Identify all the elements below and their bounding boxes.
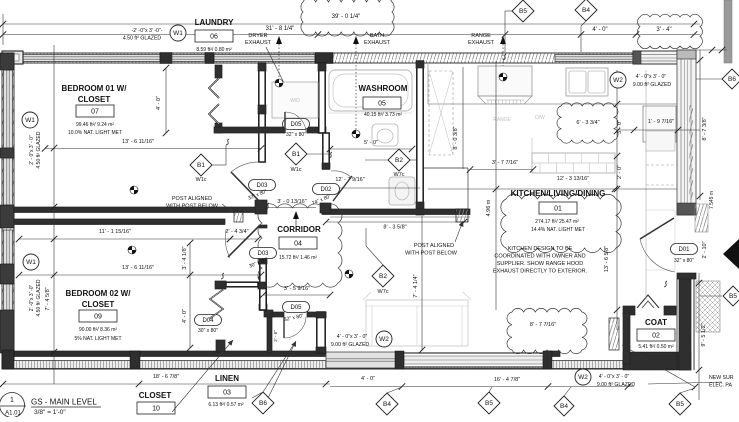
svg-text:1: 1 <box>10 397 14 404</box>
svg-text:EXHAUST: EXHAUST <box>364 40 391 46</box>
svg-text:KITCHEN/LIVING/DINING: KITCHEN/LIVING/DINING <box>511 189 606 198</box>
svg-text:5% NAT. LIGHT MET: 5% NAT. LIGHT MET <box>74 336 121 342</box>
svg-text:W1: W1 <box>173 30 183 37</box>
svg-text:32" x 80": 32" x 80" <box>286 132 306 138</box>
svg-text:7' - 4 1/4": 7' - 4 1/4" <box>413 274 419 297</box>
svg-text:4' - 0"x 3' - 0": 4' - 0"x 3' - 0" <box>599 374 630 380</box>
svg-text:1' - 9 7/16": 1' - 9 7/16" <box>648 119 674 125</box>
svg-text:3' - 0 13/16": 3' - 0 13/16" <box>277 199 306 205</box>
svg-text:4.50 ft² GLAZED: 4.50 ft² GLAZED <box>36 131 42 168</box>
svg-text:03: 03 <box>223 390 231 397</box>
svg-text:40.15 ft²/ 3.73 m²: 40.15 ft²/ 3.73 m² <box>364 112 402 118</box>
svg-text:CLOSET: CLOSET <box>139 391 172 400</box>
svg-text:W/D: W/D <box>290 98 300 104</box>
svg-text:W1: W1 <box>26 259 36 266</box>
svg-text:SUPPLIER. SHOW RANGE HOOD: SUPPLIER. SHOW RANGE HOOD <box>497 261 584 267</box>
svg-text:30" x 80": 30" x 80" <box>198 328 218 334</box>
svg-text:LAUNDRY: LAUNDRY <box>195 18 234 27</box>
svg-text:D02: D02 <box>320 187 332 193</box>
svg-text:B6: B6 <box>728 76 736 83</box>
svg-text:18' - 6 7/8": 18' - 6 7/8" <box>153 374 179 380</box>
svg-text:31' - 8 1/4": 31' - 8 1/4" <box>266 26 295 32</box>
svg-text:B5: B5 <box>485 400 493 407</box>
svg-text:10.0% NAT. LIGHT MET: 10.0% NAT. LIGHT MET <box>68 130 122 136</box>
svg-text:05: 05 <box>378 101 386 108</box>
svg-text:D03: D03 <box>257 251 269 257</box>
svg-text:9.00 ft² GLAZED: 9.00 ft² GLAZED <box>331 342 370 348</box>
svg-text:NEW SUR: NEW SUR <box>709 375 734 381</box>
svg-text:274.17 ft²/ 25.47 m²: 274.17 ft²/ 25.47 m² <box>535 219 579 225</box>
svg-text:WITH POST BELOW: WITH POST BELOW <box>166 204 219 210</box>
svg-text:4.50 ft² GLAZED: 4.50 ft² GLAZED <box>36 279 42 316</box>
svg-text:D05: D05 <box>290 305 302 311</box>
svg-text:B5: B5 <box>519 8 527 15</box>
svg-text:D01: D01 <box>678 247 690 253</box>
svg-text:2' - 4 3/4": 2' - 4 3/4" <box>225 229 248 235</box>
svg-text:A1.01: A1.01 <box>5 411 21 417</box>
svg-text:D03: D03 <box>256 183 268 189</box>
svg-text:99.46 ft²/ 9.24 m²: 99.46 ft²/ 9.24 m² <box>76 122 114 128</box>
svg-text:W2: W2 <box>379 336 389 343</box>
svg-text:EXHAUST DIRECTLY TO EXTERIOR.: EXHAUST DIRECTLY TO EXTERIOR. <box>493 269 588 275</box>
svg-text:W1c: W1c <box>291 167 302 173</box>
svg-text:15.72 ft²/ 1.46 m²: 15.72 ft²/ 1.46 m² <box>279 255 317 261</box>
svg-text:8' - 7 3/8": 8' - 7 3/8" <box>702 117 708 140</box>
svg-text:39' - 0 1/4": 39' - 0 1/4" <box>332 14 361 20</box>
svg-text:8.59 ft²/ 0.80 m²: 8.59 ft²/ 0.80 m² <box>196 47 232 53</box>
svg-text:9' - 5 1/2": 9' - 5 1/2" <box>701 323 707 346</box>
svg-text:3' - 5 9/16": 3' - 5 9/16" <box>284 286 310 292</box>
svg-text:B5: B5 <box>729 293 737 300</box>
svg-text:32" x 80": 32" x 80" <box>674 258 694 264</box>
svg-text:DRYER: DRYER <box>248 33 267 39</box>
svg-text:04: 04 <box>294 241 302 248</box>
svg-text:B1: B1 <box>292 151 300 158</box>
svg-text:13' - 6 11/16": 13' - 6 11/16" <box>122 265 154 271</box>
svg-text:W7c: W7c <box>394 172 405 178</box>
svg-text:8' - 7 7/16": 8' - 7 7/16" <box>530 322 556 328</box>
svg-text:RANGE: RANGE <box>471 33 491 39</box>
svg-text:07: 07 <box>91 109 99 116</box>
svg-text:06: 06 <box>210 34 218 41</box>
svg-text:3' - 4": 3' - 4" <box>656 27 671 33</box>
svg-text:W2: W2 <box>613 77 623 84</box>
svg-text:POST ALIGNED: POST ALIGNED <box>414 243 454 249</box>
svg-text:B2: B2 <box>379 273 387 280</box>
svg-text:COORDINATED WITH OWNER AND: COORDINATED WITH OWNER AND <box>494 254 585 260</box>
svg-text:POST ALIGNED: POST ALIGNED <box>172 196 212 202</box>
svg-text:4' - 0": 4' - 0" <box>592 27 607 33</box>
svg-text:14.4% NAT. LIGHT MET: 14.4% NAT. LIGHT MET <box>531 227 585 233</box>
svg-text:4.96 m: 4.96 m <box>486 199 492 216</box>
svg-text:D04: D04 <box>202 318 214 324</box>
svg-text:3' - 4 1/8": 3' - 4 1/8" <box>182 246 188 269</box>
svg-text:COAT: COAT <box>645 318 667 327</box>
svg-text:12' - 3 13/16": 12' - 3 13/16" <box>557 176 589 182</box>
svg-text:B4: B4 <box>383 401 391 408</box>
svg-text:B4: B4 <box>560 403 568 410</box>
svg-text:8' - 0 3/8": 8' - 0 3/8" <box>453 126 459 149</box>
svg-text:2' - 10": 2' - 10" <box>702 241 708 258</box>
svg-text:7.545 m: 7.545 m <box>709 191 715 209</box>
svg-text:10: 10 <box>152 406 160 413</box>
svg-text:CLOSET: CLOSET <box>82 300 115 309</box>
svg-text:LINEN: LINEN <box>215 374 239 383</box>
svg-text:B4: B4 <box>582 7 590 14</box>
svg-text:B6: B6 <box>259 400 267 407</box>
svg-text:D05: D05 <box>290 122 302 128</box>
svg-text:4' - 0": 4' - 0" <box>156 96 162 110</box>
svg-text:4.50 ft² GLAZED: 4.50 ft² GLAZED <box>123 36 162 42</box>
svg-text:W2: W2 <box>578 374 588 381</box>
svg-text:GS - MAIN LEVEL: GS - MAIN LEVEL <box>31 398 97 407</box>
svg-text:7' - 4 5/8": 7' - 4 5/8" <box>45 287 51 310</box>
svg-text:WITH POST BELOW: WITH POST BELOW <box>405 251 458 257</box>
svg-text:5' - 0": 5' - 0" <box>364 140 378 146</box>
svg-text:13' - 6 5/8": 13' - 6 5/8" <box>604 246 610 272</box>
svg-text:01: 01 <box>554 206 562 213</box>
svg-text:90.00 ft²/ 8.36 m²: 90.00 ft²/ 8.36 m² <box>79 327 117 333</box>
svg-text:13' - 6 11/16": 13' - 6 11/16" <box>122 139 154 145</box>
svg-text:CLOSET: CLOSET <box>78 95 111 104</box>
svg-text:W1: W1 <box>25 117 35 124</box>
svg-text:-2' -0"x 3' -0"-: -2' -0"x 3' -0"- <box>131 28 162 34</box>
svg-text:09: 09 <box>94 314 102 321</box>
svg-text:B1: B1 <box>197 162 205 169</box>
svg-text:2' - 0": 2' - 0" <box>617 165 623 179</box>
svg-text:2' -0"x 3' -0": 2' -0"x 3' -0" <box>29 284 35 311</box>
svg-text:8' - 3 5/8": 8' - 3 5/8" <box>383 225 406 231</box>
svg-text:D/W: D/W <box>535 115 545 121</box>
svg-text:4' - 0": 4' - 0" <box>182 309 188 323</box>
svg-text:6.13 ft²/ 0.57 m²: 6.13 ft²/ 0.57 m² <box>208 402 244 408</box>
svg-text:6' - 3 3/4": 6' - 3 3/4" <box>576 120 599 126</box>
svg-text:EXHAUST: EXHAUST <box>468 40 495 46</box>
svg-text:16' - 4 7/8": 16' - 4 7/8" <box>494 377 520 383</box>
svg-text:WASHROOM: WASHROOM <box>359 84 408 93</box>
svg-text:3/8" = 1'-0": 3/8" = 1'-0" <box>34 409 66 416</box>
svg-text:KITCHEN DESIGN TO BE: KITCHEN DESIGN TO BE <box>508 246 573 252</box>
svg-text:W7c: W7c <box>378 289 389 295</box>
svg-text:4' - 0": 4' - 0" <box>361 376 375 382</box>
svg-text:BEDROOM 01 W/: BEDROOM 01 W/ <box>62 84 128 93</box>
svg-text:4' - 0"x 3' - 0": 4' - 0"x 3' - 0" <box>636 74 667 80</box>
svg-text:B5: B5 <box>676 401 684 408</box>
svg-text:EXHAUST: EXHAUST <box>245 40 272 46</box>
svg-text:9.00 ft² GLAZED: 9.00 ft² GLAZED <box>597 382 636 388</box>
svg-text:2' - 0"x 3' - 0": 2' - 0"x 3' - 0" <box>29 135 35 165</box>
svg-text:9.00 ft² GLAZED: 9.00 ft² GLAZED <box>633 82 672 88</box>
svg-text:4' - 0"x 3' - 0": 4' - 0"x 3' - 0" <box>337 334 368 340</box>
svg-text:3' - 0": 3' - 0" <box>617 120 623 134</box>
svg-text:CORRIDOR: CORRIDOR <box>277 225 321 234</box>
svg-text:B2: B2 <box>395 157 403 164</box>
svg-text:2' - 6": 2' - 6" <box>273 330 278 342</box>
svg-text:5.41 ft²/ 0.50 m²: 5.41 ft²/ 0.50 m² <box>638 344 674 350</box>
svg-text:ELEC. PA: ELEC. PA <box>709 383 733 389</box>
svg-text:11' - 1 15/16": 11' - 1 15/16" <box>99 229 131 235</box>
svg-text:W1c: W1c <box>196 177 207 183</box>
svg-text:BEDROOM 02 W/: BEDROOM 02 W/ <box>66 289 132 298</box>
svg-text:02: 02 <box>652 333 660 340</box>
